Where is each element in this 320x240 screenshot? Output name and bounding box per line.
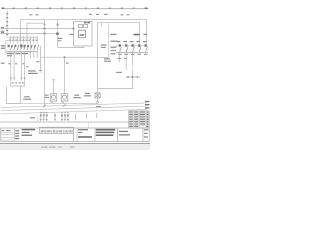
- PE end tick: [39, 70, 42, 72]
- wire label above line A 4: [121, 14, 124, 15]
- title divider x73.3: [72, 127, 74, 141]
- ruler column number 5: [49, 8, 51, 9]
- kWh meter panel box: [74, 22, 93, 47]
- lamp device E1: [95, 93, 100, 98]
- title block outer border: [1, 128, 149, 142]
- wire number label 2: [6, 17, 8, 18]
- net label L+ left margin: [1, 31, 5, 32]
- ruler column number 4: [37, 8, 39, 9]
- junction slash x64.5/trunk: [63, 104, 66, 107]
- distribution zone small box: [11, 80, 25, 86]
- trunk line 1 end label: [145, 101, 149, 102]
- wire label right A: [118, 58, 121, 59]
- pole number labels row: [9, 40, 38, 41]
- page column texts: [144, 129, 148, 130]
- trunk cable line 1: [1, 103, 147, 107]
- right breaker lower bus: [116, 51, 148, 53]
- crossing tick on arrow: [136, 76, 138, 78]
- top ruler border line: [2, 8, 149, 10]
- label -Q1: [1, 45, 5, 46]
- wire line B supply: [98, 23, 140, 44]
- wire tap x57.5: [57, 20, 59, 48]
- terminal group 1 ticks: [40, 114, 48, 121]
- left wire-number column line: [6, 11, 8, 38]
- arrow terminal 2: [13, 78, 15, 81]
- sheet bottom edge line: [0, 143, 150, 144]
- trunk cable line 3: [1, 109, 147, 114]
- schematic lower border line: [0, 121, 129, 123]
- kWh meter M1: [79, 30, 86, 38]
- ruler column number 11: [121, 8, 123, 9]
- feeder tap x108.5: [108, 23, 110, 57]
- wire number tick d: [26, 66, 28, 67]
- long distribution wire: [41, 56, 98, 58]
- wire number label x66: [66, 63, 69, 64]
- cable label -W1 inside: [101, 44, 107, 45]
- drawing field texts: [119, 131, 128, 132]
- wire drop right C corner to lamp feed: [132, 52, 134, 64]
- terminal strip reference -X1: [28, 70, 36, 71]
- breaker contact blades left: [11, 45, 39, 51]
- trunk line 3 end label: [145, 107, 149, 108]
- net label PE left margin: [1, 32, 4, 33]
- junction dot arrow crossing: [132, 76, 134, 78]
- page column divider: [142, 128, 144, 142]
- wire line A supply: [21, 20, 147, 44]
- wire drop 6 short: [33, 52, 35, 58]
- ruler column number 12: [133, 8, 135, 9]
- wire number label 4: [6, 25, 8, 26]
- wire number tick b: [15, 63, 17, 64]
- ruler column number 8: [85, 8, 87, 9]
- subpanel box bottom edge: [98, 56, 109, 58]
- breaker body marks left: [8, 44, 36, 47]
- ruler column number 1: [2, 8, 5, 9]
- manufacturer field texts: [78, 129, 88, 130]
- meter fuse mark 1: [84, 22, 87, 24]
- junction dot x64.5: [64, 56, 66, 58]
- subpanel feed vertical x97.5: [97, 23, 99, 89]
- net label N left margin: [1, 27, 4, 28]
- terminal single x96.8: [96, 113, 98, 118]
- switch pole stubs above bus: [11, 36, 38, 38]
- terminal strip label -X1: [30, 117, 35, 118]
- company address block: [96, 129, 116, 131]
- ruler column number 3: [25, 8, 27, 9]
- revision header texts: [15, 130, 19, 139]
- wire PE feeder: [0, 33, 58, 35]
- cable label -W2: [24, 96, 30, 97]
- wire drop right B: [125, 52, 127, 70]
- wire drop 1 from Q1: [10, 52, 12, 78]
- wire number tick c: [22, 63, 24, 64]
- wire drop 7 short: [36, 52, 38, 58]
- wire label above line A 2: [96, 14, 99, 15]
- wire label above line A 0a: [30, 14, 33, 15]
- label kWh: [70, 34, 74, 35]
- terminal designation bar: [40, 127, 74, 133]
- ruler column number 7: [73, 8, 75, 9]
- terminal single x55: [54, 114, 56, 121]
- terminal group 2 ticks: [61, 114, 69, 121]
- feeder label row 3: [111, 47, 117, 48]
- wire label above line A 3: [104, 14, 108, 15]
- wire label above line A 5: [127, 14, 130, 15]
- wire PEN drop x44.5: [44, 20, 46, 107]
- junction N tap x44.5: [44, 28, 46, 30]
- ruler column number 6: [61, 8, 63, 9]
- right breaker contact blades: [120, 47, 148, 52]
- fuse label F11: [144, 34, 148, 35]
- wire number label 6: [6, 34, 8, 35]
- svg-text:8N1MN M1NM N1NM: 8N1MN M1NM N1NM: [41, 128, 73, 133]
- wire label above line A 1: [89, 14, 92, 15]
- wire line A stub x27: [27, 23, 45, 37]
- value labels under main switch: [7, 53, 28, 56]
- page background strip below sheet: [0, 145, 150, 150]
- date/name field texts: [22, 129, 35, 131]
- drawing field divider: [117, 128, 119, 142]
- terminal single x75.5: [75, 114, 77, 120]
- wire number label 3: [6, 21, 8, 22]
- junction line A tap x44.5: [44, 24, 46, 26]
- footer tiny text under sheet: [41, 146, 48, 147]
- main switch top bus: [9, 37, 39, 39]
- wire drop right A: [119, 52, 121, 62]
- meter bottom tap: [83, 46, 85, 48]
- junction slash PEN/trunk: [43, 105, 46, 108]
- revision rows left: [1, 128, 15, 142]
- bottom connection line: [7, 103, 98, 105]
- terminal single x86.5: [86, 113, 88, 118]
- cable label -W5: [85, 93, 90, 94]
- fuse mark x57.5 upper: [57, 24, 59, 26]
- wire label right B: [124, 58, 127, 59]
- ruler column number 2: [13, 8, 15, 9]
- PE stub with end tick: [40, 46, 42, 71]
- table cell texts: [129, 112, 149, 128]
- arrow terminal 4: [24, 78, 26, 81]
- page reference arrow: [126, 76, 140, 78]
- trunk cable line 2: [1, 106, 147, 110]
- junction PE tap x44.5: [44, 33, 46, 35]
- trunk line 2 end label: [145, 104, 149, 105]
- right breaker top bus: [116, 45, 148, 47]
- wire drop 2 from Q1: [13, 52, 15, 78]
- column divider dash right: [88, 122, 90, 128]
- feeder label row 2: [111, 41, 118, 42]
- meter fuse block 2: [84, 25, 88, 28]
- small text near column 5 top: [58, 38, 63, 39]
- junction drop x64.5: [64, 57, 66, 94]
- meter fuse mark 2: [87, 22, 90, 24]
- revision history table: [129, 111, 150, 128]
- wire drop 5 short: [30, 52, 32, 58]
- wire N feeder: [0, 28, 74, 30]
- socket outlet device X3: [61, 94, 68, 104]
- main switch lower bus: [7, 51, 39, 53]
- enclosure outline lower left: [7, 87, 21, 104]
- wire label above line A 0b: [36, 14, 39, 15]
- main switch enclosure box: [6, 40, 31, 53]
- meter fuse block 1: [79, 25, 83, 28]
- value labels under right breakers: [118, 54, 148, 55]
- wire number label 1: [6, 13, 8, 14]
- switch pole wires down: [11, 38, 38, 44]
- column divider dash left: [37, 116, 39, 123]
- stub below line B corner: [101, 23, 103, 27]
- lamp wire terminal circle: [97, 101, 99, 103]
- arrow destination label: [116, 72, 122, 73]
- terminal digit labels group 1: [40, 112, 69, 113]
- wire number tick a: [8, 63, 10, 64]
- title block: [1, 127, 149, 141]
- feeder label row 4: [111, 53, 116, 54]
- wire drop 3 from Q1: [20, 52, 22, 78]
- right breaker labels row: [117, 41, 146, 42]
- cable label below: [104, 58, 110, 59]
- ruler column number 10: [109, 8, 111, 9]
- right breaker body marks: [119, 44, 147, 47]
- fuse label F10: [134, 34, 140, 36]
- PE stub label: [36, 61, 39, 62]
- lamp wire lower: [97, 89, 99, 105]
- arrow terminal 3: [20, 78, 22, 81]
- branch wire to meter bottom: [58, 47, 85, 49]
- wire drop 4 from Q1: [24, 52, 26, 78]
- junction N meter x73.5: [73, 28, 75, 30]
- socket outlet device X2: [50, 80, 57, 104]
- feeder label row 3b: [111, 50, 117, 51]
- ruler column number 13: [145, 8, 148, 9]
- arrow terminal 1: [10, 78, 12, 81]
- wire number label 5: [6, 30, 8, 31]
- feeder label row 1: [111, 34, 117, 35]
- revision entry marks: [2, 130, 5, 131]
- ruler column number 9: [97, 8, 99, 9]
- cable label -W3: [74, 95, 79, 96]
- manufacturer field box: [76, 128, 78, 142]
- trunk wire number label: [96, 106, 101, 107]
- fuse mark x57.5 on PE: [56, 33, 59, 35]
- net label left mid: [1, 63, 5, 64]
- small box internal marks: [12, 82, 14, 83]
- socket X2 terminal label: [45, 95, 49, 96]
